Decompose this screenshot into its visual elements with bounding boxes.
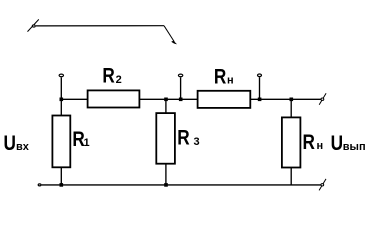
open terminal 1 (top left) bbox=[59, 74, 63, 77]
resistor R1 bbox=[52, 116, 70, 168]
svg-text:R: R bbox=[303, 131, 316, 154]
label Rn (load) bbox=[303, 131, 324, 154]
wire: top bus segment right of Rn bbox=[250, 98, 320, 100]
wire: top bus segment node A (left) bbox=[61, 98, 87, 100]
output terminal (top right) with slash bbox=[319, 93, 326, 105]
wire: top bus segment between R2 and Rn bbox=[139, 98, 197, 100]
svg-text:н: н bbox=[227, 74, 234, 86]
resistor R3 bbox=[156, 113, 175, 164]
svg-text:н: н bbox=[317, 140, 324, 152]
label Uvyp (output voltage) bbox=[331, 132, 366, 155]
svg-text:вх: вх bbox=[16, 141, 30, 153]
svg-text:R: R bbox=[214, 66, 227, 89]
junction dot at R1 top node bbox=[60, 98, 64, 102]
svg-text:1: 1 bbox=[84, 137, 90, 149]
svg-text:R: R bbox=[177, 127, 190, 150]
circuit wires bbox=[42, 77, 321, 185]
wire: R1 bottom lead bbox=[60, 167, 62, 185]
junction dot at Rn(load) top node bbox=[290, 98, 294, 102]
label R2 bbox=[102, 65, 121, 88]
junction dot at terminal-2 stub node bbox=[179, 98, 183, 102]
junction dot at R3 top node bbox=[164, 98, 168, 102]
resistor Rn (load) bbox=[282, 117, 301, 167]
wire: Rn(load) top lead bbox=[290, 99, 292, 117]
input terminal circle (arrow start) bbox=[32, 25, 35, 27]
svg-text:U: U bbox=[331, 132, 343, 155]
open terminal 3 (top right) bbox=[258, 74, 262, 77]
arrow shaft wire bbox=[36, 25, 164, 27]
junction dot at terminal-3 stub node bbox=[258, 98, 262, 102]
wire: stub terminal 2 to top bus bbox=[180, 77, 182, 99]
open terminal 2 (top middle) bbox=[178, 74, 182, 77]
svg-text:3: 3 bbox=[194, 136, 200, 148]
wire: R3 top lead bbox=[165, 99, 167, 113]
wire: stub terminal 1 to top bus bbox=[60, 77, 62, 99]
arrowhead bbox=[171, 41, 177, 45]
resistor R2 bbox=[88, 90, 140, 107]
junction dot at R3 bottom node bbox=[164, 183, 168, 187]
label R3 bbox=[177, 127, 199, 150]
wire: stub terminal 3 to top bus bbox=[259, 77, 261, 99]
slash through arrow-start terminal bbox=[28, 19, 39, 31]
label R1 bbox=[72, 128, 89, 151]
wire: R1 top lead bbox=[60, 99, 62, 115]
wire: Rn(load) bottom lead bbox=[290, 168, 292, 185]
label Uvx (input voltage) bbox=[4, 133, 30, 156]
wire: bottom bus bbox=[42, 184, 321, 186]
svg-text:R: R bbox=[102, 65, 115, 88]
junction dot at R1 bottom node bbox=[60, 183, 64, 187]
top annotation arrow bbox=[28, 19, 178, 44]
output terminal (bottom right) with slash bbox=[319, 179, 326, 191]
open terminal (bottom left input) bbox=[38, 184, 41, 186]
label Rn (series) bbox=[214, 66, 234, 89]
resistor Rn (series) bbox=[198, 91, 251, 108]
svg-text:2: 2 bbox=[116, 74, 122, 86]
wire: R3 bottom lead bbox=[165, 164, 167, 185]
svg-text:вып: вып bbox=[343, 141, 366, 153]
svg-text:U: U bbox=[4, 133, 16, 156]
